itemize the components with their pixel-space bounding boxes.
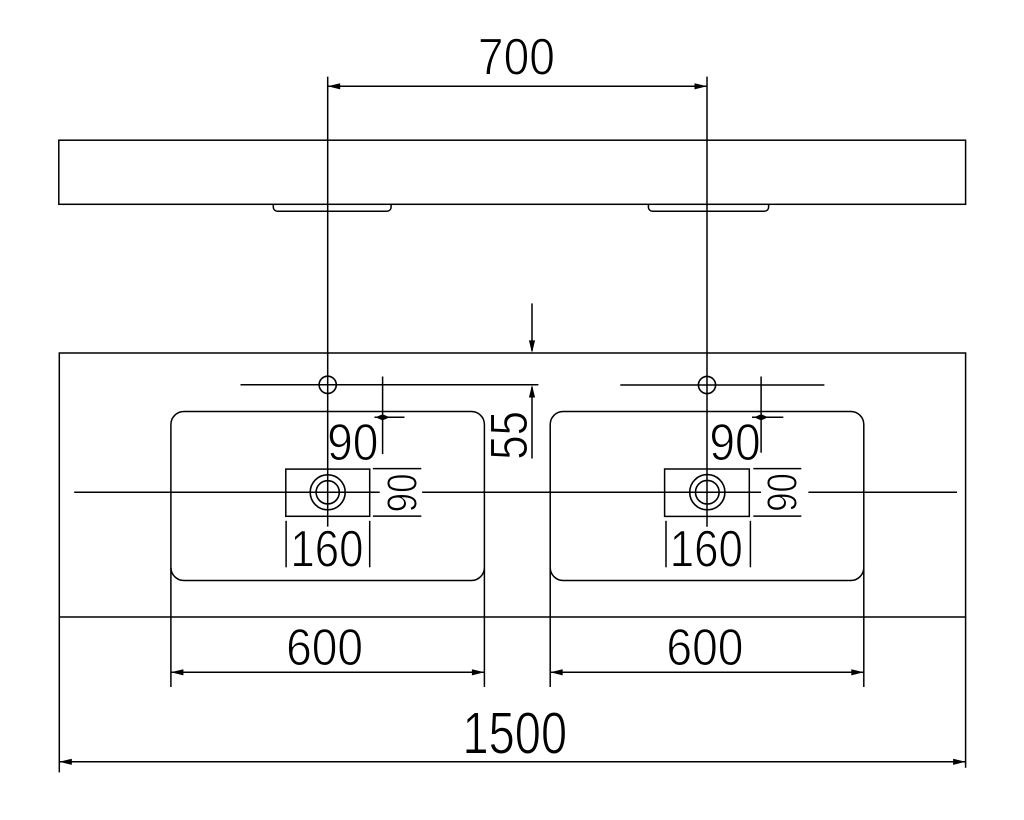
countertop side view bar [59, 140, 966, 204]
svg-text:90: 90 [327, 415, 378, 472]
600 extension line left basin right [483, 568, 485, 687]
arrowhead 1500 right [953, 759, 966, 765]
left 160 tick right [369, 521, 371, 568]
right rotated 90 extension top [753, 468, 801, 470]
svg-text:55: 55 [480, 411, 539, 460]
dimension line 600 right [550, 671, 864, 673]
svg-text:90: 90 [759, 473, 806, 512]
left drain outer circle [310, 475, 345, 510]
1500 extension line right [965, 617, 967, 768]
left drain rectangle [286, 469, 370, 516]
left 160 tick left [285, 521, 287, 568]
right drain outer circle [690, 475, 725, 510]
right mounting tab under bar [648, 204, 768, 211]
600 extension line right basin right [863, 568, 865, 687]
svg-text:700: 700 [478, 29, 555, 86]
left rotated 90 extension bottom [373, 515, 421, 517]
arrowhead 700 left [328, 83, 341, 89]
dimension line 700 [328, 85, 707, 87]
right basin rounded rectangle [550, 412, 864, 581]
55 dimension upper line [531, 303, 533, 351]
svg-text:1500: 1500 [463, 700, 568, 767]
arrowhead 600 right basin right [851, 669, 864, 675]
right drain inner circle [696, 480, 720, 504]
arrowhead 600 left basin left [171, 669, 184, 675]
left basin vertical centerline [327, 77, 329, 527]
svg-text:600: 600 [286, 620, 363, 677]
arrowhead 1500 left [59, 759, 72, 765]
right 160 tick right [749, 521, 751, 568]
main horizontal centerline segment 3 [808, 491, 957, 493]
right 90 arrow diamond [754, 414, 768, 420]
outer plan rectangle [59, 353, 965, 617]
right drain rectangle [665, 469, 750, 516]
left basin rounded rectangle [171, 412, 485, 581]
600 extension line left basin left [170, 568, 172, 687]
dimension line 600 left [171, 671, 485, 673]
right 90 dimension tail [752, 416, 783, 418]
svg-text:160: 160 [290, 521, 363, 578]
left 90 dimension tail [375, 416, 405, 418]
arrowhead 600 left basin right [472, 669, 485, 675]
dimension line 1500 [59, 761, 965, 763]
right basin vertical centerline [706, 77, 708, 527]
svg-text:90: 90 [709, 415, 760, 472]
left 90 extension line vertical [382, 377, 384, 455]
svg-text:600: 600 [666, 620, 743, 677]
left 90 arrow diamond [375, 414, 389, 420]
left faucet centerline horizontal [241, 384, 539, 386]
arrowhead 700 right [695, 83, 708, 89]
right 90 extension line vertical [760, 377, 762, 453]
svg-text:160: 160 [670, 521, 743, 578]
left drain inner circle [316, 481, 339, 504]
arrowhead 600 right basin left [550, 669, 563, 675]
600 extension line right basin left [549, 568, 551, 687]
1500 extension line left [58, 617, 60, 772]
right rotated 90 extension bottom [753, 515, 801, 517]
main horizontal centerline segment 2 [422, 491, 761, 493]
left faucet hole circle [319, 376, 336, 393]
svg-text:90: 90 [379, 473, 426, 512]
right faucet hole circle [698, 376, 715, 393]
left rotated 90 extension top [373, 468, 421, 470]
right 160 tick left [665, 521, 667, 568]
right faucet centerline horizontal [620, 384, 824, 386]
arrowhead 55 up [529, 385, 535, 398]
arrowhead 55 down [529, 340, 535, 353]
main horizontal centerline segment 1 [74, 491, 380, 493]
55 dimension lower line [531, 387, 533, 459]
left mounting tab under bar [273, 204, 391, 211]
